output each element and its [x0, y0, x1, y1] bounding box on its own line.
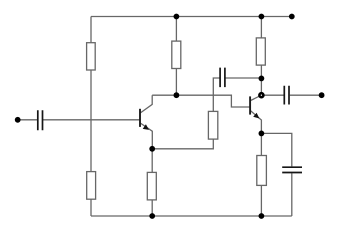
wire R2 bottom to collector node: [175, 69, 177, 96]
node Q2 emitter junction: [259, 131, 265, 137]
wire left column middle (R1 to R3, crosses input line): [90, 70, 92, 172]
node Q1 emitter junction: [149, 146, 155, 152]
capacitor C1 plates: [38, 110, 43, 130]
resistor R1: [87, 43, 96, 70]
transistor Q1 emitter arrow: [143, 124, 149, 130]
wire C1 to Q1 base: [43, 119, 140, 121]
capacitor C4 plates: [282, 167, 302, 172]
node supply terminal: [289, 14, 295, 20]
node ground rail / R7 junction: [259, 213, 265, 219]
node Q1 collector junction: [174, 92, 180, 98]
transistor Q1 base bar: [139, 109, 141, 127]
wire R7 to bottom rail: [260, 185, 262, 216]
wire emitter node right to R5: [152, 139, 213, 149]
wire Q2 emitter diagonal and down: [251, 111, 262, 134]
resistor R6: [147, 172, 156, 200]
capacitor C3 plates: [284, 86, 289, 105]
wire Q2 emitter node to R7: [260, 133, 262, 155]
node Q2 collector ring: [259, 93, 263, 97]
node input terminal: [15, 117, 21, 123]
wire C4 bottom to ground rail: [291, 173, 293, 216]
resistor R2: [172, 41, 181, 68]
wire top supply rail: [91, 16, 292, 18]
wire left column top (rail to R1): [90, 17, 92, 43]
transistor Q2 emitter arrow: [253, 113, 259, 119]
wire C3 to output terminal: [290, 94, 322, 96]
resistor R7: [257, 156, 267, 186]
wire R2 column top (rail to R2): [175, 17, 177, 42]
wire R4 bottom to Q2 collector ring: [260, 65, 262, 95]
wire Q2 collector diagonal: [251, 95, 262, 100]
wire Q1 collector vertical: [140, 95, 152, 113]
node C2 / R4 junction: [259, 76, 265, 82]
wire Q1 emitter node to R6: [151, 149, 153, 173]
wire input terminal to C1: [18, 119, 38, 121]
node ground rail / R6 junction: [149, 213, 155, 219]
transistor Q2 base bar: [249, 96, 251, 114]
resistor R5: [208, 111, 217, 139]
wire emitter node right to C4: [261, 133, 291, 166]
node output terminal: [319, 92, 325, 98]
wire left column bottom (R3 to bottom rail): [90, 199, 92, 216]
wire output: ring to C3: [261, 94, 283, 96]
resistor R4: [256, 38, 265, 65]
wire R4 column (rail to R4): [260, 17, 262, 38]
resistor R3: [87, 172, 96, 200]
wire C2 right to R4 node: [225, 77, 261, 79]
wire R6 to bottom rail: [151, 200, 153, 216]
node top rail / R4 junction: [259, 14, 265, 20]
capacitor C2 plates: [220, 68, 225, 88]
wire Q1 collector horizontal to Q2 base: [152, 95, 250, 107]
node top rail / R2 junction: [174, 14, 180, 20]
wire Q1 emitter diagonal and down: [140, 123, 152, 149]
wire bottom ground rail: [91, 215, 292, 217]
wire R5 top to C2 left: [213, 78, 219, 111]
